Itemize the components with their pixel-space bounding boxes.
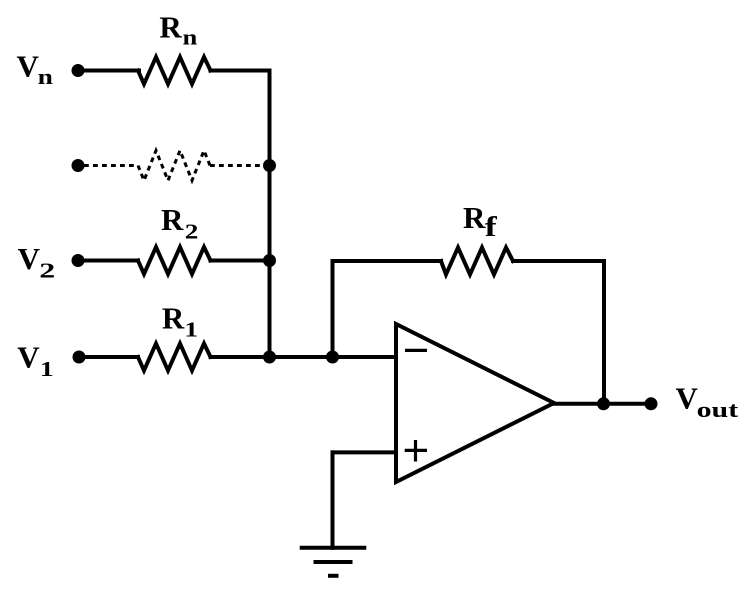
svg-text:1: 1: [40, 358, 54, 381]
svg-text:2: 2: [39, 259, 55, 282]
svg-text:f: f: [485, 211, 498, 243]
label Rf: [463, 200, 498, 243]
label Vn: [17, 49, 54, 90]
ground symbol: [300, 548, 367, 576]
svg-text:V: V: [18, 241, 41, 276]
resistor dashed (additional inputs ellipsis): [84, 151, 263, 181]
wire non-inverting input horizontal: [333, 450, 397, 454]
resistor R2: [138, 247, 211, 274]
wire Rn to bus corner: [211, 69, 270, 73]
svg-text:V: V: [17, 339, 40, 374]
label Vout: [676, 381, 739, 423]
svg-text:V: V: [676, 381, 699, 416]
wire V1 terminal to R1: [79, 355, 138, 359]
svg-text:R: R: [463, 200, 486, 235]
node junction feedback tap: [326, 351, 339, 364]
svg-text:out: out: [697, 398, 739, 422]
wire R2 to bus: [211, 259, 270, 263]
node V2 input terminal: [72, 254, 85, 267]
wire op-amp output: [554, 402, 651, 406]
label R1: [162, 301, 198, 342]
resistor Rn: [138, 57, 211, 84]
svg-text:1: 1: [184, 318, 198, 341]
node Vout output terminal: [645, 397, 658, 410]
node junction feedback to output: [597, 397, 610, 410]
svg-text:n: n: [183, 26, 198, 50]
label R2: [161, 202, 198, 244]
op-amp non-inverting input plus sign: [405, 440, 427, 462]
resistor R1: [138, 344, 211, 371]
svg-text:R: R: [161, 202, 184, 237]
node V1 input terminal: [73, 351, 86, 364]
label Rn: [159, 9, 197, 50]
node Vn input terminal: [72, 64, 85, 77]
label V1: [17, 339, 54, 381]
wire feedback right vertical to output: [602, 261, 606, 404]
svg-text:n: n: [38, 65, 53, 89]
node junction V2 on bus: [263, 254, 276, 267]
node junction bus to V1 wire: [263, 351, 276, 364]
op-amp U1 triangle: [396, 324, 554, 482]
wire V2 terminal to R2: [78, 259, 138, 263]
svg-text:R: R: [162, 301, 185, 336]
wire Vn terminal to Rn: [78, 69, 139, 73]
op-amp inverting input minus sign: [405, 349, 427, 352]
wire feedback top right horizontal: [513, 259, 604, 263]
wire R1 to op-amp inverting input: [211, 355, 397, 359]
svg-text:R: R: [159, 9, 182, 44]
svg-text:2: 2: [185, 220, 199, 243]
label V2: [18, 241, 56, 282]
svg-text:V: V: [17, 49, 40, 84]
wire summing bus vertical: [268, 71, 272, 358]
wire non-inverting to ground vertical: [331, 452, 335, 547]
wire feedback left vertical: [331, 261, 335, 357]
resistor Rf: [441, 248, 513, 275]
node junction dashed row on bus: [263, 159, 276, 172]
wire feedback top left horizontal: [333, 259, 442, 263]
node dashed-row input terminal: [72, 159, 85, 172]
